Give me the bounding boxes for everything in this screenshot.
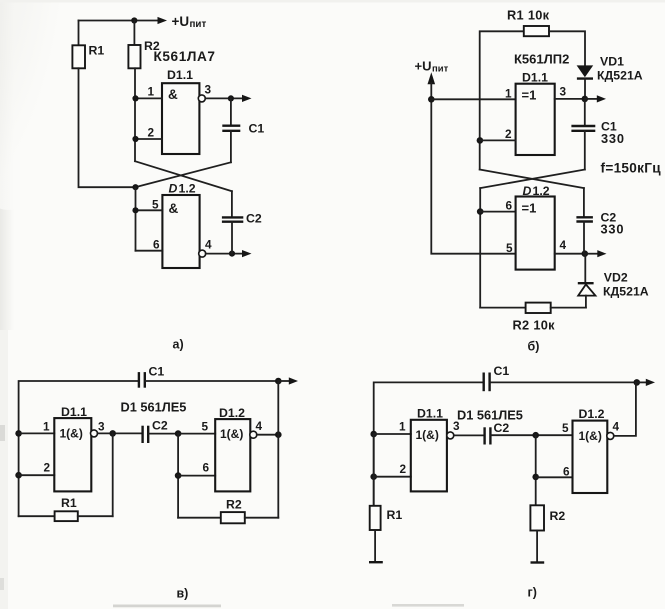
(a) gate D1.1 output inversion bubble — [198, 95, 205, 102]
svg-text:&: & — [169, 201, 179, 216]
(v) wire: pin 2 input — [19, 474, 55, 476]
(b) wire: pin 4 output — [555, 253, 585, 255]
(a) wire: pin 5 input — [136, 209, 163, 211]
page bottom cropped caption remnants — [113, 605, 221, 608]
svg-text:2: 2 — [505, 127, 512, 141]
(g) gate D1.1 output inversion bubble — [447, 432, 454, 439]
(v) wire: pin 4 output — [257, 434, 279, 436]
svg-text:&: & — [168, 87, 178, 102]
svg-text:VD1: VD1 — [600, 55, 624, 69]
svg-text:R1: R1 — [89, 44, 105, 58]
(a) wire: pin 2 input — [136, 138, 163, 140]
svg-text:2: 2 — [44, 461, 51, 475]
(a) node: pin 1 junction — [132, 95, 138, 101]
(v) capacitor C2 — [143, 426, 149, 443]
(b) wire: supply rail down left side to pin 5 — [431, 83, 515, 254]
(b) wire: diagonal from pin2 branch to C2 top — [480, 170, 584, 189]
(b) wire: feedback top loop left segment — [480, 31, 524, 169]
(g) node: top rail junction with output 4 branch — [634, 379, 641, 386]
(g) node: pin 1 junction — [370, 431, 377, 438]
svg-text:R1: R1 — [387, 508, 403, 522]
(a) wire: C2 bottom lead — [231, 222, 233, 254]
svg-text:1(&): 1(&) — [60, 427, 83, 441]
(b) gate D1.1 body — [516, 84, 555, 155]
(g) wire: C2 right lead to pin 5 — [491, 434, 573, 436]
svg-text:f=150кГц: f=150кГц — [601, 161, 662, 176]
(v) wire: top rail right of C1 — [145, 380, 278, 382]
svg-text:D: D — [169, 182, 178, 196]
svg-text:C1: C1 — [149, 365, 165, 379]
(g) capacitor C1 — [484, 373, 490, 392]
(a) capacitor C1 — [222, 126, 240, 131]
svg-text:1.2: 1.2 — [533, 184, 550, 198]
(g) node: C2 junction with R2 branch — [532, 432, 539, 439]
(g) wire: R2 branch vertical — [535, 435, 537, 505]
(g) wire: top rail right of C1 — [490, 381, 637, 383]
(b) wire: VD2 cathode lead — [584, 254, 586, 283]
(b) arrow: output 4 arrowhead — [597, 250, 606, 257]
(b) diode VD1 — [577, 65, 594, 78]
svg-text:пит: пит — [190, 19, 207, 30]
(g) arrow: top rail arrowhead — [646, 379, 655, 386]
(a) wire: pin 1 input — [136, 97, 163, 99]
(v) node: output 4 junction — [275, 431, 282, 438]
(v) wire: bottom loop of R2 left segment — [178, 517, 221, 519]
svg-text:г): г) — [528, 586, 537, 600]
(v) node: pin 2 junction — [15, 472, 22, 479]
(a) wire: C1 bottom lead — [230, 131, 232, 162]
(a) gate D1.2 output inversion bubble — [199, 250, 206, 257]
svg-text:4: 4 — [205, 238, 212, 252]
(b) wire: output 4 stub — [585, 253, 599, 255]
svg-text:3: 3 — [205, 83, 212, 97]
svg-text:D1 561ЛЕ5: D1 561ЛЕ5 — [121, 400, 187, 415]
(a) wire: R1 bottom lead down left side and right to lower gate input node — [79, 68, 136, 187]
(a) wire: C2 top lead — [231, 191, 233, 217]
(v) gate D1.1 output inversion bubble — [91, 430, 98, 437]
svg-text:К561ЛА7: К561ЛА7 — [154, 49, 216, 64]
(g) wire: R2 to ground — [536, 531, 538, 562]
svg-text:D1.1: D1.1 — [61, 405, 87, 419]
(a) resistor R2 — [128, 45, 140, 68]
(v) gate D1.2 body — [215, 419, 250, 491]
(b) wire: C2 top lead — [583, 188, 585, 217]
(v) wire: bottom loop of R2 right segment — [245, 517, 278, 519]
svg-text:1: 1 — [43, 420, 50, 434]
(a) arrow: output a arrowhead — [242, 95, 252, 102]
(v) gate D1.2 output inversion bubble — [250, 431, 257, 438]
(v) node: R1 tap on output 3 — [109, 430, 116, 437]
(b) node: pin 6 junction — [477, 208, 484, 215]
svg-text:а): а) — [173, 338, 184, 352]
svg-text:5: 5 — [506, 241, 513, 255]
(a) wire: pin 6 input — [136, 250, 163, 252]
(v) node: pin 5 junction — [175, 430, 182, 437]
svg-text:пит: пит — [432, 64, 449, 75]
(v) node: pin 1 junction — [15, 430, 22, 437]
(a) wire: C1 top lead — [230, 98, 232, 125]
svg-text:6: 6 — [153, 238, 160, 252]
(g) wire: top rail left of C1 — [374, 382, 483, 505]
svg-text:1(&): 1(&) — [220, 427, 243, 441]
svg-text:+U: +U — [415, 59, 432, 74]
(b) gate D1.2 body — [516, 197, 555, 270]
svg-text:1(&): 1(&) — [579, 429, 602, 443]
svg-text:R2: R2 — [226, 498, 242, 512]
svg-text:6: 6 — [203, 461, 210, 475]
(a) node: lower gate input junction — [132, 184, 138, 190]
(b) power symbol +Uпит arrow — [428, 72, 436, 84]
svg-text:C2: C2 — [152, 419, 168, 433]
(a) capacitor C2 — [222, 217, 243, 221]
(b) wire: pin 2 input — [480, 139, 516, 141]
(v) wire: left vertical of D1.2 inputs to bottom loop — [177, 434, 179, 518]
svg-text:R2 10к: R2 10к — [513, 318, 556, 333]
(a) gate D1.2 body — [162, 195, 199, 268]
(g) gate D1.2 body — [573, 421, 608, 493]
svg-text:D1.1: D1.1 — [417, 407, 443, 421]
svg-text:3: 3 — [98, 420, 105, 434]
(g) wire: pin 3 output to C2 — [454, 434, 484, 436]
(b) wire: VD1 cathode to output 3 node — [584, 79, 586, 99]
(a) arrow: output b arrowhead — [242, 250, 252, 257]
svg-text:1: 1 — [505, 87, 512, 101]
(b) arrow: output 3 arrowhead — [597, 95, 606, 102]
(b) resistor R1 — [524, 26, 549, 36]
(g) ground symbol for R1 — [369, 561, 383, 563]
svg-text:330: 330 — [601, 131, 625, 146]
svg-text:1: 1 — [148, 85, 155, 99]
svg-text:D1.1: D1.1 — [522, 71, 548, 85]
(g) node: pin 2 junction — [370, 473, 377, 480]
(v) wire: pin 1 input — [19, 432, 55, 434]
(v) node: pin 6 junction — [175, 472, 182, 479]
(g) gate D1.2 output inversion bubble — [607, 432, 614, 439]
(b) diode VD2 — [578, 283, 596, 295]
svg-text:C1: C1 — [494, 364, 510, 378]
svg-text:330: 330 — [601, 222, 625, 237]
svg-text:1.2: 1.2 — [179, 182, 196, 196]
(g) resistor R2 — [530, 505, 544, 530]
(b) wire: top loop right segment to VD1 anode — [549, 31, 585, 65]
svg-text:R2: R2 — [550, 509, 566, 523]
(a) node: C2 tap on output 4 — [229, 251, 235, 257]
svg-text:1: 1 — [399, 420, 406, 434]
(g) wire: R1 lower lead down from node — [373, 435, 375, 506]
(v) wire: R1 branch down from output 3 — [112, 433, 114, 516]
svg-text:R1 10к: R1 10к — [507, 8, 550, 23]
svg-text:1(&): 1(&) — [416, 428, 439, 442]
(a) wire: pin 3 output to the right — [205, 97, 243, 99]
(a) wire: R1 top lead — [78, 21, 80, 46]
(v) node: top rail junction with output 4 branch — [275, 378, 282, 385]
(b) node: output 4 junction — [582, 250, 589, 257]
(a) resistor R1 — [72, 45, 85, 68]
(a) node: pin 5 junction — [132, 207, 138, 213]
(b) wire: pin 3 output — [555, 98, 585, 100]
(v) capacitor C1 — [139, 372, 145, 388]
svg-text:D: D — [523, 184, 532, 198]
(v) wire: bottom loop left segment — [19, 515, 55, 517]
(b) wire: bottom loop right segment — [551, 307, 586, 309]
(g) wire: pin 1 input — [374, 433, 411, 435]
svg-text:6: 6 — [506, 199, 513, 213]
svg-text:3: 3 — [560, 85, 567, 99]
(b) wire: C2 bottom lead — [583, 222, 585, 254]
(a) wire: +U supply rail — [79, 20, 160, 22]
svg-text:К561ЛП2: К561ЛП2 — [514, 52, 569, 67]
(a) node: C1 tap on output 3 — [228, 95, 234, 101]
svg-text:5: 5 — [562, 421, 569, 435]
svg-text:C2: C2 — [246, 212, 262, 226]
(g) gate D1.1 body — [411, 420, 447, 492]
(b) resistor R2 — [526, 303, 551, 313]
(v) wire: top rail left of C1 — [19, 381, 139, 516]
svg-text:D1 561ЛЕ5: D1 561ЛЕ5 — [457, 408, 523, 423]
(b) wire: VD2 anode to bottom loop — [585, 296, 587, 308]
svg-text:+U: +U — [172, 14, 190, 29]
(v) wire: bottom loop right segment — [78, 515, 113, 517]
svg-text:4: 4 — [560, 238, 567, 252]
svg-text:VD2: VD2 — [604, 271, 628, 285]
(b) capacitor C2 — [576, 217, 593, 221]
svg-text:=1: =1 — [522, 201, 537, 216]
(b) node: pin 2 junction — [477, 137, 484, 144]
svg-text:5: 5 — [202, 420, 209, 434]
(v) wire: right vertical from top rail to bottom loop — [277, 381, 279, 518]
(b) node: pin 1 tap on supply rail — [428, 96, 435, 103]
(g) capacitor C2 — [485, 427, 491, 444]
svg-text:КД521А: КД521А — [597, 69, 643, 83]
(a) node: junction of R2 with supply rail — [131, 17, 137, 23]
(g) wire: pin 4 output up to top rail — [614, 382, 636, 436]
(g) wire: pin 6 input — [536, 476, 573, 478]
(v) arrow: top rail arrowhead — [289, 377, 298, 384]
(a) wire: pin 4 output to the right — [206, 253, 244, 255]
(a) node: pin 2 junction — [132, 136, 138, 142]
(b) capacitor C1 — [571, 126, 595, 131]
(b) node: output 3 junction — [582, 96, 589, 103]
(b) wire: pin 6 input — [480, 211, 515, 213]
(g) wire: top rail stub — [637, 381, 647, 383]
svg-text:б): б) — [528, 340, 540, 354]
(b) wire: left vertical to bottom loop — [479, 188, 481, 308]
(b) wire: C1 top lead — [584, 99, 586, 126]
(v) wire: pin 3 output to C2 — [98, 432, 142, 434]
(g) wire: pin 2 input — [374, 476, 411, 478]
(b) wire: pin 1 input — [431, 98, 515, 100]
(g) wire: R1 to ground — [374, 530, 376, 562]
svg-text:C1: C1 — [249, 122, 265, 136]
(a) arrow: supply rail arrowhead — [158, 17, 168, 24]
svg-text:2: 2 — [400, 462, 407, 476]
(b) wire: C1 bottom lead — [584, 131, 586, 170]
svg-text:D1.2: D1.2 — [219, 406, 245, 420]
(a) wire: cross-coupling diagonal from C1 bottom to lower gate input node — [136, 162, 231, 187]
svg-text:2: 2 — [148, 126, 155, 140]
(v) gate D1.1 body — [54, 418, 91, 491]
(a) wire: R2 top lead — [133, 21, 135, 46]
svg-text:D1.2: D1.2 — [579, 407, 605, 421]
(a) wire: cross-coupling diagonal from upper gate input node to C2 top — [135, 161, 232, 191]
(a) wire: R2 bottom lead down through pins 1,2 node — [134, 68, 136, 161]
(g) ground symbol for R2 — [531, 561, 545, 563]
(a) wire: left vertical joining pins 5 and 6 — [135, 187, 137, 251]
(b) wire: bottom loop left segment — [480, 307, 525, 309]
(v) wire: pin 5 input — [178, 433, 215, 435]
svg-text:в): в) — [177, 587, 189, 601]
(v) wire: top rail stub — [278, 380, 290, 382]
svg-text:D1.1: D1.1 — [167, 68, 193, 82]
(v) resistor R1 — [55, 511, 78, 521]
svg-text:5: 5 — [152, 198, 159, 212]
(b) wire: diagonal from C1 bottom to pin6 branch — [480, 170, 585, 189]
(g) node: pin 6 junction — [532, 474, 539, 481]
(v) resistor R2 — [221, 512, 245, 523]
svg-text:=1: =1 — [522, 88, 537, 103]
svg-text:4: 4 — [613, 420, 620, 434]
svg-text:6: 6 — [563, 465, 570, 479]
svg-text:C2: C2 — [494, 421, 510, 435]
(v) wire: C2 right lead — [149, 433, 178, 435]
(g) resistor R1 — [370, 506, 381, 530]
svg-text:КД521А: КД521А — [603, 285, 649, 299]
(a) gate D1.1 body — [162, 83, 199, 154]
(b) wire: output 3 stub — [585, 98, 598, 100]
(v) wire: pin 6 input — [178, 475, 215, 477]
svg-text:4: 4 — [256, 419, 263, 433]
svg-text:R1: R1 — [61, 496, 77, 510]
